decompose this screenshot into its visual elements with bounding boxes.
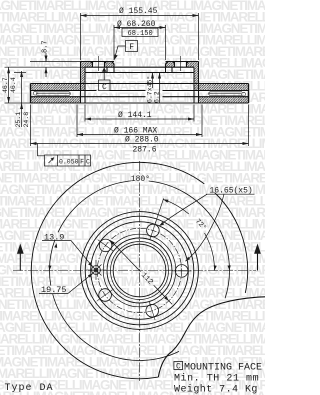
svg-text:Type DA: Type DA [5,383,54,394]
svg-text:F: F [80,158,84,165]
dim 46.7 [5,67,31,103]
vane left [33,91,70,95]
180 arc arrows [48,243,230,270]
vane right [209,92,246,96]
svg-text:Ø 144.1: Ø 144.1 [118,111,152,120]
pin radial line [86,260,106,280]
runout frame [38,144,91,167]
svg-text:Ø 68.260: Ø 68.260 [117,20,156,29]
svg-text:Ø 288.0: Ø 288.0 [125,136,159,145]
svg-text:46.7: 46.7 [2,77,9,93]
section arrow left [17,244,24,271]
vent bottom line [31,96,249,98]
ring D144 [85,216,194,325]
svg-text:Min. TH 21 mm: Min. TH 21 mm [174,373,259,385]
112 label [139,272,154,287]
radial ext hole1 [155,198,164,224]
svg-text:24.8: 24.8 [23,112,30,128]
box 68.150 [122,28,158,36]
svg-text:180°: 180° [131,175,150,184]
19.75 underline+leader [39,274,92,294]
svg-text:MOUNTING FACE: MOUNTING FACE [184,363,262,374]
hatch flange right [166,62,175,68]
svg-text:C: C [176,362,181,371]
svg-text:68.150: 68.150 [128,30,153,38]
flange hole left [91,62,107,68]
outer circle D288 [31,162,247,378]
band top edge [31,83,249,85]
svg-text:19.75: 19.75 [41,285,67,295]
hatch left wall [81,62,86,91]
16.65 underline [206,193,255,195]
flange top left [81,61,115,63]
dim 68.260 [114,25,166,60]
mounting face line [85,66,194,68]
bore circle [113,244,166,297]
band left end [30,84,32,104]
section arrow right [254,244,261,271]
13.9 underline+leader [42,241,92,267]
spigot ring [107,238,172,303]
bolt circle D112 dashed [97,228,181,312]
dim 6.7 / 6.2 [151,73,161,104]
svg-text:6.2: 6.2 [153,91,160,103]
hatch right wall [194,62,199,91]
72 label [193,217,208,232]
band right end [248,84,250,104]
note boundary curve [158,297,265,377]
svg-text:6.7x45°: 6.7x45° [145,76,153,103]
hatch top strip right [199,84,249,91]
leader to hole1 [159,194,207,226]
svg-text:25.1: 25.1 [15,112,22,128]
flange hole right [173,62,189,68]
hatch top strip left [31,84,81,91]
dim 155.45 [81,13,199,60]
flange top right [166,61,199,63]
112 dim line [113,243,172,304]
svg-text:287.6: 287.6 [133,145,157,154]
svg-text:Weight 7.4 Kg: Weight 7.4 Kg [174,384,258,395]
dim 8.7 [5,53,86,77]
hole radial ticks [97,221,191,320]
vent top line [31,90,249,92]
svg-text:C: C [102,83,107,92]
left wall outer [80,62,82,104]
hub face ring [91,222,189,320]
C box note [174,362,183,370]
bore chamfer ring [111,242,169,300]
left wall inner [84,67,86,103]
bore left edge [112,62,115,73]
spigot face line [85,72,194,74]
hatch bottom strip right [199,97,249,103]
svg-text:8.7: 8.7 [41,40,49,53]
dim 144.1 [85,105,194,122]
dim 166 MAX [77,105,202,138]
dim arc 180deg r90 [50,181,230,361]
svg-text:F: F [129,43,134,52]
svg-text:C: C [86,158,90,165]
bolt hole 4 [99,289,112,302]
hole axis left [98,56,100,71]
ring D96 [103,234,176,307]
vertical centerline [139,161,141,381]
svg-text:16.65(x5): 16.65(x5) [210,186,253,195]
band bottom edge [31,102,249,104]
right wall outer [198,62,200,104]
svg-text:Ø 166 MAX: Ø 166 MAX [114,127,157,136]
hatch flange left [85,62,93,68]
pin hole [91,265,102,276]
svg-text:13.9: 13.9 [44,232,64,242]
bolt hole 3 [146,304,159,317]
svg-text:46.4: 46.4 [10,77,17,93]
dim 288.0 [31,105,249,147]
spigot left side [106,67,108,72]
datum C [99,67,111,90]
bolt hole 5 [99,239,112,252]
leader to hole2 [185,194,224,261]
right wall inner [193,67,195,103]
hub ring D155 [81,212,199,330]
dim 25.1 [20,71,23,127]
hatch bottom strip left [31,97,81,103]
datum F [114,41,138,61]
bolt hole 2 [175,265,188,278]
svg-text:0.050: 0.050 [59,158,79,165]
spigot right side [171,67,173,72]
spigot ext line [14,72,26,74]
72deg dim arc [163,199,214,270]
hole axis right [180,56,182,71]
horizontal centerline [13,270,256,272]
bore right edge [166,62,169,73]
bolt hole 1 [147,224,160,237]
svg-text:Ø 155.45: Ø 155.45 [119,7,158,16]
